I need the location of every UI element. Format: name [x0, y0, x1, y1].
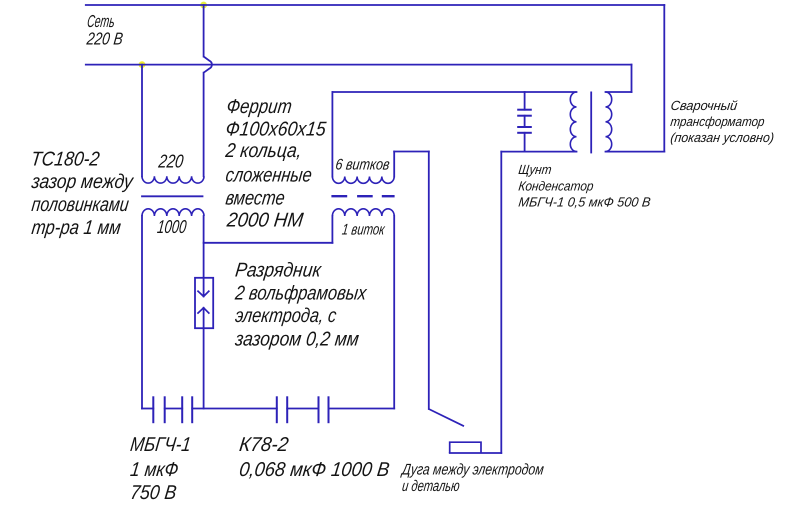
wire between C2 sections	[287, 408, 318, 410]
label T1 line 2	[30, 171, 136, 193]
transformer T3 right winding	[606, 92, 612, 152]
svg-text:1 виток: 1 виток	[341, 221, 386, 238]
wire T1 secondary left to C1	[141, 216, 143, 409]
label C1 line 2	[129, 459, 180, 481]
label arc line 2	[401, 478, 461, 495]
wire right vertical from L1	[663, 5, 665, 152]
label ferrite line 1	[225, 96, 293, 118]
transformer T1 core	[142, 195, 203, 197]
svg-text:0,068 мкФ 1000 В: 0,068 мкФ 1000 В	[238, 459, 391, 481]
wire bottom mains line L2	[86, 64, 632, 66]
label C1 line 3	[129, 482, 178, 504]
svg-text:Разрядник: Разрядник	[234, 259, 324, 281]
svg-text:Феррит: Феррит	[225, 96, 293, 118]
transformer T1 secondary winding (1000)	[142, 209, 204, 216]
wire between C1 sections	[165, 408, 183, 410]
svg-text:2 кольца,: 2 кольца,	[224, 140, 304, 162]
label spark gap line 4	[233, 328, 360, 350]
capacitor C1 plate 1	[152, 396, 154, 423]
svg-text:6 витков: 6 витков	[335, 156, 391, 173]
capacitor C2 plate 4	[328, 396, 330, 423]
label T1 line 3	[30, 194, 130, 216]
svg-text:сложенные: сложенные	[224, 164, 313, 186]
wire hop over L2 (no connection)	[204, 57, 212, 73]
svg-text:Конденсатор: Конденсатор	[518, 179, 595, 194]
transformer T3 left winding	[570, 92, 576, 152]
wire C2 to T2 secondary	[329, 408, 395, 410]
capacitor C1 plate 4	[191, 396, 193, 423]
label C2 line 2	[238, 459, 391, 481]
svg-text:электрода, с: электрода, с	[234, 305, 338, 327]
wire from L2 to T1 primary left	[141, 65, 143, 177]
capacitor C3 plate 3	[517, 126, 532, 128]
label T3 line 1	[670, 98, 739, 113]
transformer T2 primary winding (6 vitkov)	[332, 177, 394, 184]
wire from hop to T1 primary right	[203, 73, 205, 177]
label ferrite line 6	[225, 210, 305, 232]
svg-text:2 вольфрамовых: 2 вольфрамовых	[233, 283, 368, 305]
capacitor C3 plate 4	[517, 132, 532, 134]
electrode (slanted)	[429, 409, 464, 426]
wire C3 bottom lead	[524, 133, 526, 152]
wire T2 secondary right leg	[393, 216, 395, 409]
svg-text:750 В: 750 В	[129, 482, 178, 504]
capacitor C2 plate 3	[318, 396, 320, 423]
svg-text:трансформатор: трансформатор	[670, 114, 766, 129]
transformer T2 ferrite core (dashed)	[331, 195, 394, 197]
wire link T1 to T2 primary	[204, 242, 333, 244]
label Set' 220V line 2	[85, 28, 124, 48]
svg-text:МБГЧ-1: МБГЧ-1	[129, 434, 192, 456]
svg-text:1000: 1000	[156, 216, 188, 237]
capacitor C1 plate 3	[181, 396, 183, 423]
svg-text:220: 220	[157, 150, 185, 171]
wire T2 primary left leg up	[331, 92, 333, 177]
label spark gap line 3	[234, 305, 338, 327]
spark gap FV1 lower electrode arrow	[197, 308, 209, 314]
wire top mains line L1	[86, 4, 665, 6]
svg-text:зазором 0,2 мм: зазором 0,2 мм	[233, 328, 360, 350]
label ferrite line 3	[224, 140, 304, 162]
label T3 line 3	[670, 130, 775, 145]
node junction dot on L1 at x=203.6	[200, 2, 207, 9]
label T3 line 2	[670, 114, 766, 129]
label C2 line 1	[238, 434, 290, 456]
svg-text:Сварочный: Сварочный	[670, 98, 739, 113]
label ferrite line 4	[224, 164, 313, 186]
label C3 line 2	[518, 179, 595, 194]
label arc line 1	[400, 462, 545, 479]
svg-text:ТС180-2: ТС180-2	[30, 148, 101, 170]
wire to welding transformer right winding top	[606, 91, 632, 93]
label Set' 220V line 1	[86, 11, 116, 31]
label T2 primary 6 vitkov	[335, 156, 391, 173]
wire electrode drop	[428, 152, 430, 410]
node junction dot on L2 at x=142	[139, 61, 146, 68]
spark gap FV1 body	[195, 278, 213, 328]
svg-text:Дуга между электродом: Дуга между электродом	[400, 462, 545, 479]
svg-text:1 мкФ: 1 мкФ	[129, 459, 180, 481]
svg-text:половинками: половинками	[30, 194, 130, 216]
label ferrite line 2	[224, 118, 327, 140]
label T1 primary turns 220	[157, 150, 185, 171]
svg-text:(показан условно): (показан условно)	[670, 130, 775, 145]
label C3 line 3	[518, 195, 652, 210]
wire tank bottom rail	[501, 151, 576, 153]
transformer T1 primary winding (220)	[142, 176, 204, 183]
svg-text:К78-2: К78-2	[238, 434, 290, 456]
svg-text:Ф100х60х15: Ф100х60х15	[224, 118, 327, 140]
capacitor C3 plate 1	[517, 109, 532, 111]
wire welding transformer right winding bottom	[606, 151, 665, 153]
wire between C3 sections	[524, 116, 526, 127]
label T2 secondary 1 vitok	[341, 221, 386, 238]
svg-text:и деталью: и деталью	[401, 478, 461, 495]
workpiece (detail) plate	[450, 442, 502, 453]
label T1 line 1	[30, 148, 101, 170]
wire step to electrode drop	[394, 151, 429, 153]
wire workpiece drop	[500, 152, 502, 453]
wire from L1 to T1 primary (upper)	[203, 5, 205, 57]
wire right vertical from L2	[631, 65, 633, 92]
label C1 line 1	[129, 434, 192, 456]
wire spark gap to bottom row	[203, 308, 205, 409]
wire T1 secondary right leg	[203, 216, 205, 296]
label T1 secondary turns 1000	[156, 216, 188, 237]
label ferrite line 5	[224, 187, 286, 209]
capacitor C3 plate 2	[517, 115, 532, 117]
label spark gap line 1	[234, 259, 324, 281]
svg-text:зазор между: зазор между	[30, 171, 136, 193]
svg-text:тр-ра 1 мм: тр-ра 1 мм	[30, 217, 122, 239]
wire T2 primary right step up	[393, 152, 395, 177]
capacitor C1 plate 2	[164, 396, 166, 423]
spark gap FV1 upper electrode arrow	[197, 291, 209, 297]
svg-text:Щунт: Щунт	[518, 162, 553, 177]
label C3 line 1	[518, 162, 553, 177]
transformer T2 secondary winding (1 vitok)	[332, 209, 394, 216]
capacitor C2 plate 2	[286, 396, 288, 423]
capacitor C2 plate 1	[276, 396, 278, 423]
label spark gap line 2	[233, 283, 368, 305]
label T1 line 4	[30, 217, 122, 239]
transformer T3 core	[590, 92, 592, 152]
wire C1 to spark-gap leg	[192, 408, 277, 410]
wire C3 top lead	[524, 92, 526, 110]
node junction T1/ferrite link	[203, 242, 205, 244]
svg-text:МБГЧ-1 0,5 мкФ 500 В: МБГЧ-1 0,5 мкФ 500 В	[518, 195, 652, 210]
wire bottom row left corner	[142, 408, 153, 410]
svg-text:2000 НМ: 2000 НМ	[225, 210, 305, 232]
wire T2 secondary left leg	[331, 216, 333, 243]
svg-text:220 В: 220 В	[85, 28, 124, 48]
svg-text:вместе: вместе	[224, 187, 286, 209]
wire tank top rail	[332, 91, 576, 93]
